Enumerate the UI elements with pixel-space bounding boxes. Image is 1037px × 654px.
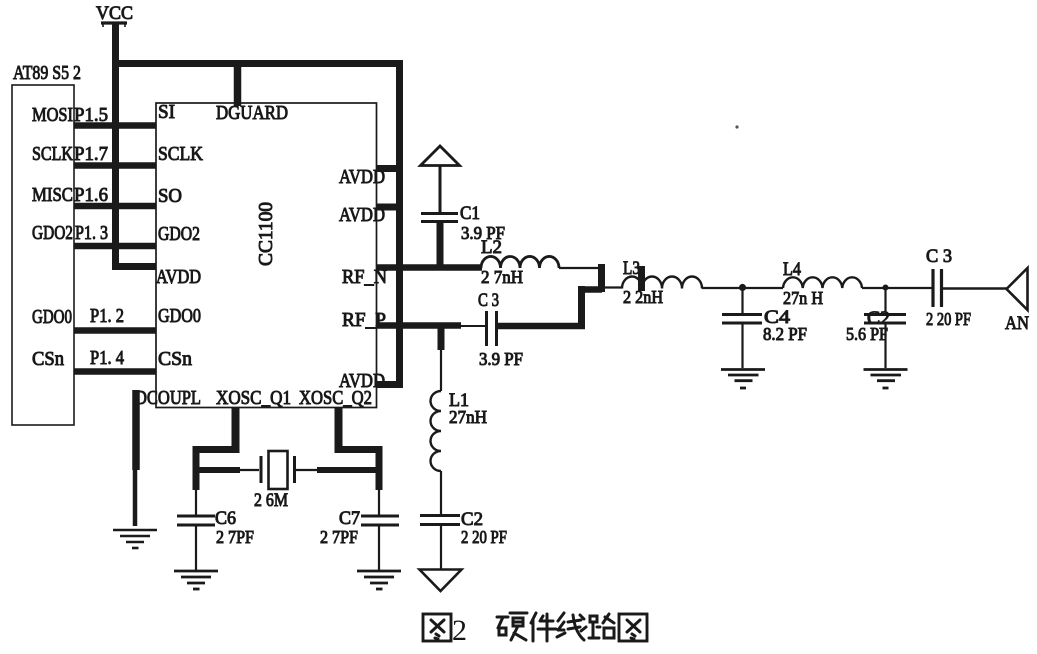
pin label SCLK / P1.7 <box>32 143 108 165</box>
ground (earth) under C4 <box>721 370 765 389</box>
svg-text:C1: C1 <box>460 203 480 224</box>
svg-text:SCLK: SCLK <box>158 143 203 165</box>
capacitor C3 3.9PF (series) <box>478 290 523 369</box>
svg-text:P1. 3: P1. 3 <box>75 222 108 244</box>
wire C2 to ground <box>884 323 886 368</box>
caption 图2 硬件线路图 <box>423 613 647 647</box>
wire RF_P <box>376 322 461 329</box>
svg-text:P1.6: P1.6 <box>74 184 108 206</box>
inductor L1 27nH (vertical) <box>431 390 488 471</box>
caption char 图 (1) <box>423 614 451 641</box>
wire C7 to ground <box>378 525 380 570</box>
wire VCC right rail <box>396 60 403 388</box>
svg-text:GDO0: GDO0 <box>158 305 201 327</box>
caption char 线 <box>557 613 586 640</box>
svg-text:GDO0: GDO0 <box>32 306 72 328</box>
wire C6 to ground <box>195 525 197 570</box>
capacitor C1 3.9PF <box>421 203 505 243</box>
wire L4 to C2 node <box>862 287 932 289</box>
capacitor C3 220PF (series) <box>926 246 971 329</box>
svg-text:MISC: MISC <box>32 184 73 206</box>
wire AVDD right stub 2 <box>376 204 400 211</box>
wire DGUARD drop <box>234 63 242 106</box>
junction node bar RF_N/RF_P <box>598 264 605 292</box>
wire AVDD right stub 1 <box>376 165 400 172</box>
caption char 路 <box>589 614 614 638</box>
inductor L3 22nH <box>622 258 702 307</box>
junction artifact bar at L3 <box>638 266 645 291</box>
ground (earth) under C2 5.6PF <box>864 370 908 389</box>
wire XOSC_Q2 horizontal <box>335 446 383 453</box>
ground (triangle) <box>420 570 462 592</box>
svg-text:SI: SI <box>158 101 175 123</box>
ground (earth) under C6 <box>174 571 218 589</box>
wire RF_P to C3 plate (thin) <box>459 325 486 327</box>
IC AT89S52 <box>12 62 81 425</box>
wire VCC trunk vertical <box>112 24 119 267</box>
wire P1.2 to GDO0 <box>74 327 156 334</box>
ground (earth) under DCOUPL <box>113 530 157 548</box>
svg-text:C 3: C 3 <box>926 246 952 267</box>
svg-text:L2: L2 <box>481 237 502 258</box>
svg-text:CSn: CSn <box>158 348 192 370</box>
IC U1 CC1100 <box>156 103 377 408</box>
wire L2 to node <box>559 267 601 269</box>
power symbol arrow above C1 <box>421 146 460 166</box>
wire C2 shunt down <box>884 288 886 313</box>
wire XOSC_Q2 node down <box>376 446 383 490</box>
svg-text:2 7PF: 2 7PF <box>320 527 358 547</box>
svg-text:AN: AN <box>1005 313 1029 334</box>
svg-text:5.6 PF: 5.6 PF <box>846 324 888 344</box>
capacitor C6 27PF <box>177 508 254 547</box>
wire riser up <box>578 286 585 329</box>
svg-text:DCOUPL: DCOUPL <box>135 387 201 409</box>
wire L3 to C4 node <box>702 287 742 289</box>
wire P1.6 to SO <box>74 203 156 210</box>
svg-text:P1. 4: P1. 4 <box>90 347 124 369</box>
svg-text:2: 2 <box>452 614 467 647</box>
svg-text:2 7PF: 2 7PF <box>216 527 254 547</box>
svg-text:MOSI: MOSI <box>32 104 73 126</box>
wire P1.3 to GDO2 <box>74 243 156 250</box>
junction node C4 <box>739 284 746 291</box>
pin label GDO0 / P1.2 <box>32 305 124 328</box>
wire XOSC_Q1 drop <box>232 408 240 453</box>
stray dot artifact <box>735 125 738 128</box>
svg-text:AVDD: AVDD <box>156 266 201 288</box>
svg-text:8.2 PF: 8.2 PF <box>763 324 807 344</box>
svg-text:C6: C6 <box>215 508 236 529</box>
svg-text:2 6M: 2 6M <box>254 490 288 511</box>
wire node to L3 <box>602 286 622 288</box>
svg-text:AT89 S5 2: AT89 S5 2 <box>13 62 81 84</box>
svg-text:GDO2: GDO2 <box>32 222 73 244</box>
svg-text:27n H: 27n H <box>783 288 823 308</box>
caption char 件 <box>531 613 556 641</box>
wire L1 to C2 <box>440 471 442 514</box>
wire arrow to C1 <box>439 166 442 212</box>
svg-text:2 7nH: 2 7nH <box>481 267 523 287</box>
wire XOSC_Q2 drop <box>335 408 343 453</box>
wire C2 to triangle ground <box>440 525 442 569</box>
wire C3 to antenna <box>942 287 1016 289</box>
svg-text:DGUARD: DGUARD <box>216 102 288 124</box>
svg-text:P1. 2: P1. 2 <box>90 305 124 327</box>
svg-text:3.9 PF: 3.9 PF <box>479 349 523 369</box>
pin label CSn / P1.4 <box>32 347 124 370</box>
svg-text:C7: C7 <box>339 508 360 529</box>
wire AVDD right stub 3 <box>376 381 400 388</box>
crystal Y1 26M <box>193 451 382 511</box>
caption char 图 (2) <box>619 614 647 641</box>
caption char 硬 <box>497 613 527 640</box>
wire riser to node <box>581 286 602 293</box>
wire VCC to AVDD left stub <box>112 263 156 270</box>
ground (earth) under C7 <box>357 571 401 589</box>
svg-text:27nH: 27nH <box>449 407 487 427</box>
capacitor C4 8.2PF <box>722 307 807 344</box>
wire C3 to riser <box>497 323 585 330</box>
wire C1 to RF_N <box>437 222 444 270</box>
capacitor C7 27PF <box>320 508 399 547</box>
wire C4 down <box>741 288 743 313</box>
svg-text:GDO2: GDO2 <box>158 223 200 245</box>
svg-text:SO: SO <box>158 185 182 207</box>
svg-text:2 20 PF: 2 20 PF <box>926 309 971 329</box>
inductor L2 27nH <box>481 237 559 287</box>
pin label MISC / P1.6 <box>32 184 108 206</box>
wire P1.5 to SI <box>74 122 156 129</box>
svg-text:CC1100: CC1100 <box>255 202 277 266</box>
wire XOSC_Q1 horizontal <box>193 446 240 453</box>
wire P1.7 to SCLK <box>74 162 156 169</box>
inductor L4 27nH <box>783 259 862 308</box>
wire VCC top rail <box>112 60 403 67</box>
wire C4 to ground <box>741 323 743 368</box>
power symbol VCC <box>96 3 133 27</box>
svg-text:2 20 PF: 2 20 PF <box>461 527 507 547</box>
svg-text:C 3: C 3 <box>478 290 499 311</box>
svg-text:CSn: CSn <box>32 348 64 370</box>
wire DCOUPL drop <box>132 390 140 470</box>
junction node C2 <box>883 285 889 291</box>
wire XOSC_Q1 node down <box>193 446 200 490</box>
svg-text:P1.7: P1.7 <box>74 143 108 165</box>
antenna AN <box>1005 268 1029 334</box>
wire RF_P stub down to L1 <box>438 326 445 350</box>
svg-text:SCLK: SCLK <box>32 143 73 165</box>
svg-text:VCC: VCC <box>96 3 133 24</box>
wire RF_N <box>376 264 482 271</box>
capacitor C2 5.6PF (shunt) <box>846 308 906 344</box>
capacitor C2 220PF <box>420 509 507 547</box>
pin label MOSI / P1.5 <box>32 104 108 126</box>
wire node to L4 <box>742 287 783 289</box>
wire P1.4 to CSn <box>74 368 156 375</box>
pin label GDO2 / P1.3 <box>32 222 108 244</box>
svg-text:XOSC_Q1: XOSC_Q1 <box>216 387 291 409</box>
